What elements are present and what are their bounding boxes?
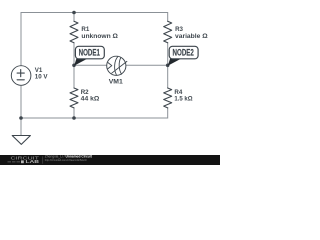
svg-text:44 kΩ: 44 kΩ xyxy=(81,95,100,102)
svg-text:variable Ω: variable Ω xyxy=(175,33,208,40)
svg-text:unknown Ω: unknown Ω xyxy=(81,33,118,40)
svg-text:1.5 kΩ: 1.5 kΩ xyxy=(174,95,192,102)
svg-text:http://circuitlab.com/c/2awm4k: http://circuitlab.com/c/2awm4kr52e3z xyxy=(45,158,87,162)
svg-text:10 V: 10 V xyxy=(35,74,49,81)
svg-text:VM1: VM1 xyxy=(109,79,124,86)
svg-text:LAB: LAB xyxy=(26,159,40,164)
svg-text:NODE1: NODE1 xyxy=(79,48,100,58)
svg-text:NODE2: NODE2 xyxy=(173,48,194,58)
